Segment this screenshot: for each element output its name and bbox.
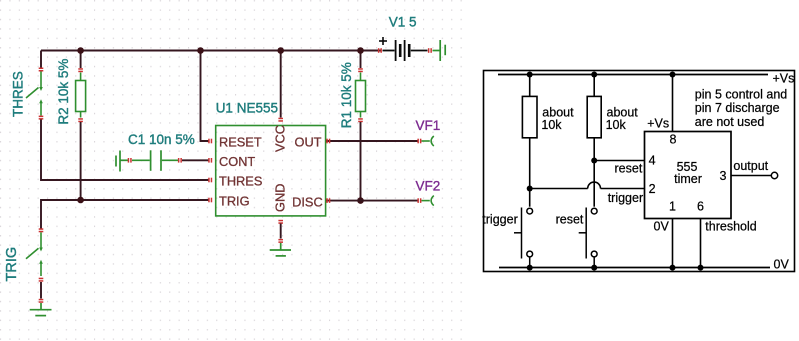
pin tick battery right bbox=[428, 48, 432, 53]
junction node pin1/0V bbox=[670, 265, 676, 271]
resistor R2 bbox=[76, 73, 86, 118]
wire +Vs rail bbox=[498, 74, 768, 76]
wire rail to RESET pin bbox=[201, 51, 210, 142]
wire rail to R1 bbox=[360, 51, 362, 69]
junction node trigger bbox=[527, 186, 533, 192]
svg-text:R2 10k 5%: R2 10k 5% bbox=[56, 59, 71, 125]
svg-text:4: 4 bbox=[649, 154, 656, 168]
wire 0V rail bbox=[499, 267, 770, 269]
pin tick RESET bbox=[208, 139, 212, 144]
pin tick VCC bbox=[278, 118, 283, 122]
pin tick switch S-TRIG bottom bbox=[39, 278, 44, 282]
junction node rail/RESET bbox=[197, 47, 204, 54]
probe VF1 bbox=[422, 136, 434, 146]
ground symbol right of battery bbox=[433, 40, 446, 61]
wire rail to Ra bbox=[529, 75, 531, 97]
junction node rail/R2 bbox=[77, 47, 84, 54]
wire GND pin down bbox=[280, 224, 282, 239]
svg-text:GND: GND bbox=[272, 184, 287, 212]
svg-text:trigger: trigger bbox=[482, 213, 517, 227]
wire rail to pin 8 bbox=[672, 75, 674, 132]
junction node reset-btn/0V bbox=[591, 265, 597, 271]
svg-text:+Vs: +Vs bbox=[647, 117, 669, 131]
wire OUT to VF1 bbox=[326, 140, 419, 142]
pin tick switch S-THRES top bbox=[39, 68, 44, 72]
svg-text:TRIG: TRIG bbox=[219, 194, 250, 209]
svg-text:3: 3 bbox=[720, 169, 727, 183]
pin tick at VF1 bbox=[417, 139, 421, 144]
diagram frame bbox=[484, 71, 795, 272]
wire left vertical from rail to THRES switch bbox=[40, 51, 42, 69]
junction node reset bbox=[591, 158, 597, 164]
svg-text:pin 7 discharge: pin 7 discharge bbox=[695, 101, 780, 115]
pin tick C1 right bbox=[178, 158, 182, 163]
svg-text:are not used: are not used bbox=[695, 115, 765, 129]
svg-text:+Vs: +Vs bbox=[773, 72, 795, 86]
svg-text:R1 10k 5%: R1 10k 5% bbox=[339, 62, 354, 128]
svg-text:DISC: DISC bbox=[292, 194, 323, 209]
wire top Vcc rail bbox=[41, 50, 381, 52]
svg-text:reset: reset bbox=[556, 213, 584, 227]
svg-text:VF2: VF2 bbox=[416, 179, 441, 194]
junction node rail/pin8 bbox=[670, 72, 676, 78]
resistor Rb (about 10k) bbox=[587, 96, 601, 137]
IC U1 box bbox=[216, 126, 326, 216]
wire Rb to reset node and button bbox=[593, 138, 595, 207]
junction node rail/R1 bbox=[357, 47, 364, 54]
pushbutton trigger bbox=[514, 208, 533, 268]
battery V1 bbox=[379, 37, 428, 61]
wire TRIG line corner down to TRIG switch bbox=[41, 200, 210, 229]
ground symbol below U1 bbox=[270, 243, 291, 256]
junction node pin6/0V bbox=[698, 265, 704, 271]
pin tick switch S-THRES bottom bbox=[39, 116, 44, 120]
pin tick switch S-TRIG top bbox=[39, 228, 44, 232]
pin tick battery left bbox=[378, 48, 382, 53]
capacitor C1 bbox=[132, 150, 179, 171]
svg-text:CONT: CONT bbox=[219, 154, 255, 169]
junction node R1/DISC bbox=[357, 197, 364, 204]
svg-text:RESET: RESET bbox=[219, 135, 262, 150]
svg-text:pin 5 control and: pin 5 control and bbox=[695, 87, 787, 101]
pin tick DISC at box bbox=[326, 198, 330, 203]
svg-text:reset: reset bbox=[615, 162, 643, 176]
junction node trigger-btn/0V bbox=[527, 265, 533, 271]
svg-text:VF1: VF1 bbox=[416, 118, 441, 133]
svg-text:THRES: THRES bbox=[11, 71, 26, 117]
svg-text:trigger: trigger bbox=[608, 191, 643, 205]
svg-text:1: 1 bbox=[669, 200, 676, 214]
pin tick ground bottom bbox=[39, 299, 44, 303]
resistor Ra (about 10k) bbox=[522, 96, 537, 137]
svg-text:V1 5: V1 5 bbox=[389, 15, 417, 30]
junction node rail/Ra bbox=[527, 72, 533, 78]
svg-text:output: output bbox=[733, 159, 768, 173]
pushbutton reset bbox=[579, 208, 597, 268]
svg-text:U1 NE555: U1 NE555 bbox=[216, 100, 278, 115]
wire R2 to TRIG line bbox=[80, 122, 82, 200]
wire rail to R2 bbox=[80, 51, 82, 69]
pin tick C1 ground side bbox=[128, 158, 132, 163]
svg-text:0V: 0V bbox=[654, 220, 670, 234]
junction node R2/TRIG bbox=[77, 197, 84, 204]
output terminal bbox=[771, 172, 777, 178]
pin tick TRIG bbox=[208, 198, 212, 203]
svg-text:10k: 10k bbox=[541, 118, 562, 132]
pin tick R2 bottom bbox=[78, 118, 83, 122]
pin tick R2 top bbox=[78, 68, 83, 72]
wire trigger node to pin 2 with hop bbox=[530, 188, 588, 190]
switch S-TRIG (open SPST) bbox=[26, 232, 41, 276]
pin tick GND ground bbox=[278, 239, 283, 243]
svg-text:10k: 10k bbox=[606, 118, 627, 132]
pin tick THRES bbox=[208, 178, 212, 183]
svg-text:OUT: OUT bbox=[294, 135, 321, 150]
wire Ra to trigger node bbox=[529, 138, 531, 207]
resistor R1 bbox=[356, 73, 366, 118]
ground symbol at C1 left bbox=[116, 151, 129, 172]
svg-text:VCC: VCC bbox=[272, 125, 287, 152]
wire pin 3 to output terminal bbox=[731, 175, 771, 177]
junction node rail/Rb bbox=[591, 72, 597, 78]
IC 555 timer box bbox=[645, 132, 732, 219]
wire rail to VCC pin bbox=[280, 51, 282, 118]
probe VF2 bbox=[422, 196, 434, 206]
svg-text:THRES: THRES bbox=[219, 174, 262, 189]
pin tick CONT bbox=[208, 158, 212, 163]
pin tick GND top bbox=[278, 220, 283, 224]
pin tick OUT at box bbox=[326, 139, 330, 144]
wire R1 to DISC line bbox=[360, 122, 362, 201]
svg-text:threshold: threshold bbox=[705, 220, 756, 234]
wire reset node to pin 4 bbox=[594, 160, 644, 162]
svg-text:0V: 0V bbox=[774, 258, 790, 272]
svg-text:8: 8 bbox=[670, 133, 677, 147]
wire THRES switch to THRES pin (corner) bbox=[41, 120, 210, 181]
switch S-THRES (open SPST) bbox=[26, 72, 41, 116]
svg-text:2: 2 bbox=[649, 182, 656, 196]
svg-text:C1 10n 5%: C1 10n 5% bbox=[128, 132, 195, 147]
ground symbol bottom left bbox=[30, 303, 52, 316]
pin tick at VF2 bbox=[417, 198, 421, 203]
pin tick R1 top bbox=[358, 68, 363, 72]
svg-text:6: 6 bbox=[697, 200, 704, 214]
wire rail to Rb bbox=[593, 75, 595, 97]
svg-text:timer: timer bbox=[674, 172, 702, 186]
svg-text:TRIG: TRIG bbox=[4, 247, 20, 282]
wire pin 1 to 0V bbox=[672, 219, 674, 268]
junction node rail/VCC bbox=[277, 47, 284, 54]
wire DISC to VF2 bbox=[326, 200, 419, 202]
wire C1 to CONT pin bbox=[182, 159, 210, 161]
pin tick R1 bottom bbox=[358, 118, 363, 122]
wire pin 6 to 0V bbox=[700, 219, 702, 268]
wire TRIG switch to ground bbox=[40, 282, 42, 299]
